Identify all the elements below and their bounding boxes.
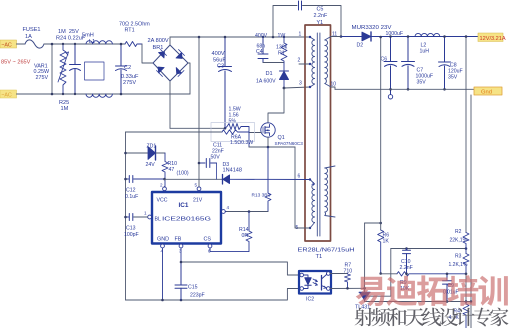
svg-text:3: 3 <box>179 249 182 254</box>
T1 aux winding <box>310 180 315 229</box>
wire TL431 cathode drop <box>364 223 366 292</box>
optocoupler IC2 <box>299 271 331 294</box>
capacitor C7 <box>402 37 415 90</box>
svg-text:1M 25V: 1M 25V <box>58 29 79 35</box>
transistor Q1 <box>261 123 275 137</box>
junction dot startup <box>198 36 201 39</box>
capacitor C13 <box>126 214 133 221</box>
capacitor C5 <box>299 1 302 10</box>
svg-text:BL: BL <box>155 217 161 223</box>
svg-text:2A 800V: 2A 800V <box>148 38 169 44</box>
svg-text:47: 47 <box>169 167 175 173</box>
capacitor C1 <box>70 44 81 94</box>
wire vertical VAR1 branch <box>51 44 53 94</box>
IC1 bottom pin GND <box>161 244 165 301</box>
wire VCC node to aux diode <box>165 178 223 180</box>
junction dot R14 top <box>248 210 251 213</box>
svg-text:T1: T1 <box>316 254 323 260</box>
wire L input to fuse <box>17 43 26 45</box>
svg-text:21V: 21V <box>193 198 203 204</box>
junction dot gnd GND pin <box>161 299 164 302</box>
svg-text:4: 4 <box>227 205 230 210</box>
wire bridge AC2 riser <box>188 63 190 94</box>
comp line with R9 <box>381 273 397 275</box>
svg-text:1K: 1K <box>383 239 390 245</box>
svg-text:50V: 50V <box>211 155 221 161</box>
svg-text:1A: 1A <box>25 34 32 40</box>
secondary gnd rail <box>335 88 474 90</box>
wire opto emitter line <box>330 287 365 289</box>
svg-text:C4: C4 <box>256 49 263 55</box>
T1 pin 1 <box>309 36 311 38</box>
capacitor C9 <box>443 274 452 302</box>
svg-text:1uH: 1uH <box>420 49 430 55</box>
svg-text:1W: 1W <box>278 33 286 39</box>
primary gnd rail left vertical <box>125 132 127 300</box>
IC1 pin 2 stub <box>163 187 167 193</box>
T1 pin 11 stub <box>331 36 341 38</box>
IC1 pin 5 stub <box>197 187 201 192</box>
svg-text:D2: D2 <box>357 43 364 49</box>
T1 secondary winding top <box>325 37 331 88</box>
capacitor C2 <box>116 44 127 94</box>
wire drain node to transformer pin3 <box>284 87 310 88</box>
svg-text:710: 710 <box>344 268 353 274</box>
capacitor C3 <box>219 37 232 128</box>
svg-text:CS: CS <box>204 237 212 243</box>
terminal AC line (L) yellow box <box>0 40 17 48</box>
svg-text:1.5Ω0.3W: 1.5Ω0.3W <box>230 140 253 146</box>
svg-text:RT1: RT1 <box>125 28 135 34</box>
svg-text:1000uF: 1000uF <box>386 31 404 37</box>
anode rail <box>365 301 471 303</box>
svg-text:IC1: IC1 <box>179 202 189 209</box>
junction dot gnd FB line <box>180 299 183 302</box>
junction dot drain node <box>283 87 286 90</box>
thermistor RT1 <box>125 42 142 47</box>
svg-text:1: 1 <box>299 32 302 38</box>
svg-text:0R: 0R <box>242 233 249 239</box>
svg-text:275V: 275V <box>123 80 136 86</box>
wire opto collector to R7 <box>330 273 347 275</box>
IC1 controller box <box>152 192 221 244</box>
svg-text:C3: C3 <box>217 64 224 70</box>
svg-text:IC2: IC2 <box>306 297 314 303</box>
resistor R14 <box>210 212 252 252</box>
svg-text:4: 4 <box>161 249 164 254</box>
capacitor C8 <box>439 37 451 90</box>
T1 pin 10 stub <box>331 87 335 89</box>
T1 pin 2 stub <box>299 63 310 65</box>
zener ZD1 <box>126 146 166 160</box>
svg-text:24V: 24V <box>146 162 156 168</box>
svg-text:C2: C2 <box>124 65 131 71</box>
svg-text:~AC: ~AC <box>1 42 12 48</box>
junction dot line A C3 <box>224 127 227 130</box>
wire bridge minus drop <box>169 81 171 128</box>
junction dot C2 bottom <box>120 93 123 96</box>
svg-text:C12: C12 <box>126 188 136 194</box>
capacitor C15 <box>175 262 187 300</box>
svg-text:4: 4 <box>312 182 315 188</box>
capacitor C6 <box>384 37 397 100</box>
svg-text:1M: 1M <box>61 106 69 112</box>
node A junction dot <box>51 43 54 46</box>
secondary rectifier D2 <box>341 32 478 41</box>
BR1 diode bottom-right <box>176 68 184 77</box>
svg-text:10: 10 <box>331 82 337 88</box>
wire drain node down to Q1 <box>268 88 284 123</box>
capacitor C4 <box>258 37 268 63</box>
junction dot C2 top <box>120 43 123 46</box>
svg-text:6: 6 <box>208 249 211 254</box>
divider chain R2 R3 <box>465 37 467 233</box>
svg-text:400V: 400V <box>255 33 268 39</box>
svg-text:L1: L1 <box>89 39 95 45</box>
svg-text:Gnd: Gnd <box>481 90 492 96</box>
inductor L2 <box>415 33 440 36</box>
wire divider to anode rail <box>465 274 467 302</box>
svg-text:223pF: 223pF <box>190 293 205 299</box>
diode D3 <box>223 175 311 185</box>
wire fuse to node A <box>44 43 125 45</box>
wire DC+ rail <box>170 36 310 38</box>
svg-text:1: 1 <box>144 211 147 216</box>
svg-text:2: 2 <box>298 58 301 64</box>
svg-text:BR1: BR1 <box>153 45 164 51</box>
svg-text:35V: 35V <box>417 80 427 86</box>
snubber top junction dot <box>272 36 275 39</box>
svg-text:~AC: ~AC <box>1 92 12 98</box>
T1 lower secondary winding <box>325 166 335 217</box>
junction dot VCC node <box>163 178 166 181</box>
wire aux return drop <box>295 147 310 228</box>
svg-text:C13: C13 <box>126 226 136 232</box>
svg-text:GND: GND <box>157 237 169 243</box>
capacitor C10 <box>403 249 411 274</box>
resistor R10 <box>162 153 168 187</box>
wire R6 top feed <box>365 222 381 224</box>
svg-text:(100): (100) <box>177 171 189 177</box>
svg-text:MUR3320 23V: MUR3320 23V <box>352 25 393 31</box>
svg-text:5%: 5% <box>229 119 237 125</box>
junction dots input net <box>62 43 64 45</box>
svg-text:1N4148: 1N4148 <box>223 168 243 174</box>
sense line B from gnd rail <box>126 131 223 133</box>
sense line A from bridge minus <box>170 127 225 129</box>
svg-text:22K,1%: 22K,1% <box>450 238 468 244</box>
T1 pin 6 (aux) <box>309 178 311 180</box>
wire sense node under Q1 <box>249 146 295 148</box>
resistor R4 <box>463 302 469 328</box>
svg-text:5mH: 5mH <box>82 33 94 39</box>
bridge rectifier BR1 <box>153 45 188 81</box>
svg-text:ZD1: ZD1 <box>147 144 157 150</box>
resistor R6 <box>378 230 384 274</box>
svg-text:12V/3.21A: 12V/3.21A <box>480 36 506 42</box>
ref line <box>391 248 466 250</box>
Y-capacitor C5 loop <box>273 6 297 38</box>
terminal AC neutral (N) yellow box <box>0 90 17 98</box>
wire left pin to C13 <box>134 216 148 218</box>
wire bridge plus to DC rail <box>169 37 171 45</box>
wire CS sense to IC1 pin4 <box>226 211 268 213</box>
svg-text:C15: C15 <box>188 285 198 291</box>
svg-text:1.2K,1%: 1.2K,1% <box>449 262 468 268</box>
svg-text:C6: C6 <box>381 57 388 63</box>
terminal +12V output <box>478 33 506 42</box>
annotation box R6A <box>211 123 255 142</box>
T1 primary winding <box>310 37 315 87</box>
resistor R2 <box>463 233 469 254</box>
capacitor C11 <box>199 159 217 180</box>
svg-text:0.1uF: 0.1uF <box>125 194 138 200</box>
svg-text:FB: FB <box>175 237 182 243</box>
resistor R9 10K <box>397 272 466 276</box>
resistor R1 <box>281 37 287 63</box>
resistor R24 (varistor zigzag with arrow) <box>58 44 69 94</box>
feedback sense vertical R6 <box>380 37 382 230</box>
svg-text:400V: 400V <box>212 51 225 57</box>
resistor R5 <box>225 124 249 148</box>
svg-text:11: 11 <box>332 32 337 38</box>
resistor R6A <box>222 130 249 134</box>
TL431 shunt regulator <box>359 249 391 302</box>
wire N input run <box>17 93 191 95</box>
T1 pin 3 <box>309 86 311 88</box>
svg-text:VCC: VCC <box>157 198 168 204</box>
wire startup line HV to IC1 pin5 <box>198 37 200 187</box>
junction dot C3 top <box>224 36 227 39</box>
BR1 diode top-right <box>176 50 185 59</box>
svg-text:275V: 275V <box>36 75 49 81</box>
wire snubber join <box>263 62 284 64</box>
resistor R7 <box>345 274 351 289</box>
wire Q1 source left <box>249 132 261 134</box>
IC1 right pin 4 <box>221 210 226 214</box>
svg-text:3: 3 <box>299 81 302 87</box>
T1 pin 5 (aux) <box>309 227 311 229</box>
fuse F1 <box>25 40 44 48</box>
watermark red text yiditagpeixun <box>356 275 508 306</box>
IC1 left pin BL <box>148 215 152 219</box>
wire FB to opto <box>181 262 299 275</box>
gnd vertical from Gnd terminal <box>470 95 472 328</box>
svg-text:R2: R2 <box>455 229 462 235</box>
wire Q1 bottom <box>267 137 269 147</box>
svg-text:ER28L/N67/15uH: ER28L/N67/15uH <box>298 248 356 254</box>
svg-text:2: 2 <box>160 183 163 188</box>
svg-text:R3: R3 <box>455 254 462 260</box>
capacitor C12 <box>126 176 165 183</box>
svg-text:5: 5 <box>195 183 198 188</box>
primary gnd bottom rail <box>126 289 300 301</box>
node A2 junction dot <box>51 93 54 96</box>
IC1 bottom pin FB <box>179 244 183 263</box>
watermark gray text shepin <box>355 308 509 327</box>
terminal Gnd output <box>474 87 502 96</box>
svg-text:TL431: TL431 <box>355 305 370 311</box>
svg-text:FUSE1: FUSE1 <box>23 27 41 33</box>
svg-text:2.2nF: 2.2nF <box>314 13 328 19</box>
BR1 diode bottom-left <box>157 67 165 77</box>
svg-text:85V ~ 265V: 85V ~ 265V <box>1 60 31 66</box>
svg-text:C5: C5 <box>317 7 324 13</box>
common mode choke L1 <box>85 41 113 98</box>
junction dots snubber <box>262 36 264 38</box>
svg-text:2.2nF: 2.2nF <box>400 265 413 271</box>
svg-text:100pF: 100pF <box>124 232 139 238</box>
svg-text:R1: R1 <box>278 51 285 57</box>
transformer T1 body <box>305 25 331 241</box>
svg-text:R13 3R3: R13 3R3 <box>252 193 271 199</box>
junction dot C5 right <box>340 35 343 38</box>
junction dot source <box>267 146 270 149</box>
wire to bridge AC1 <box>142 44 153 63</box>
svg-text:35V: 35V <box>448 75 458 81</box>
svg-text:1A 600V: 1A 600V <box>256 79 276 85</box>
resistor R3 <box>463 254 469 274</box>
svg-text:6: 6 <box>298 174 301 180</box>
svg-text:SPA07N60C3: SPA07N60C3 <box>275 141 304 146</box>
diode D1 <box>280 63 289 89</box>
BR1 diode top-left <box>159 50 167 59</box>
svg-text:ICE2B0165G: ICE2B0165G <box>162 217 211 223</box>
svg-text:D1: D1 <box>266 71 273 77</box>
resistor R13 3R3 <box>265 147 271 212</box>
IC1 bottom pin CS <box>208 244 212 252</box>
